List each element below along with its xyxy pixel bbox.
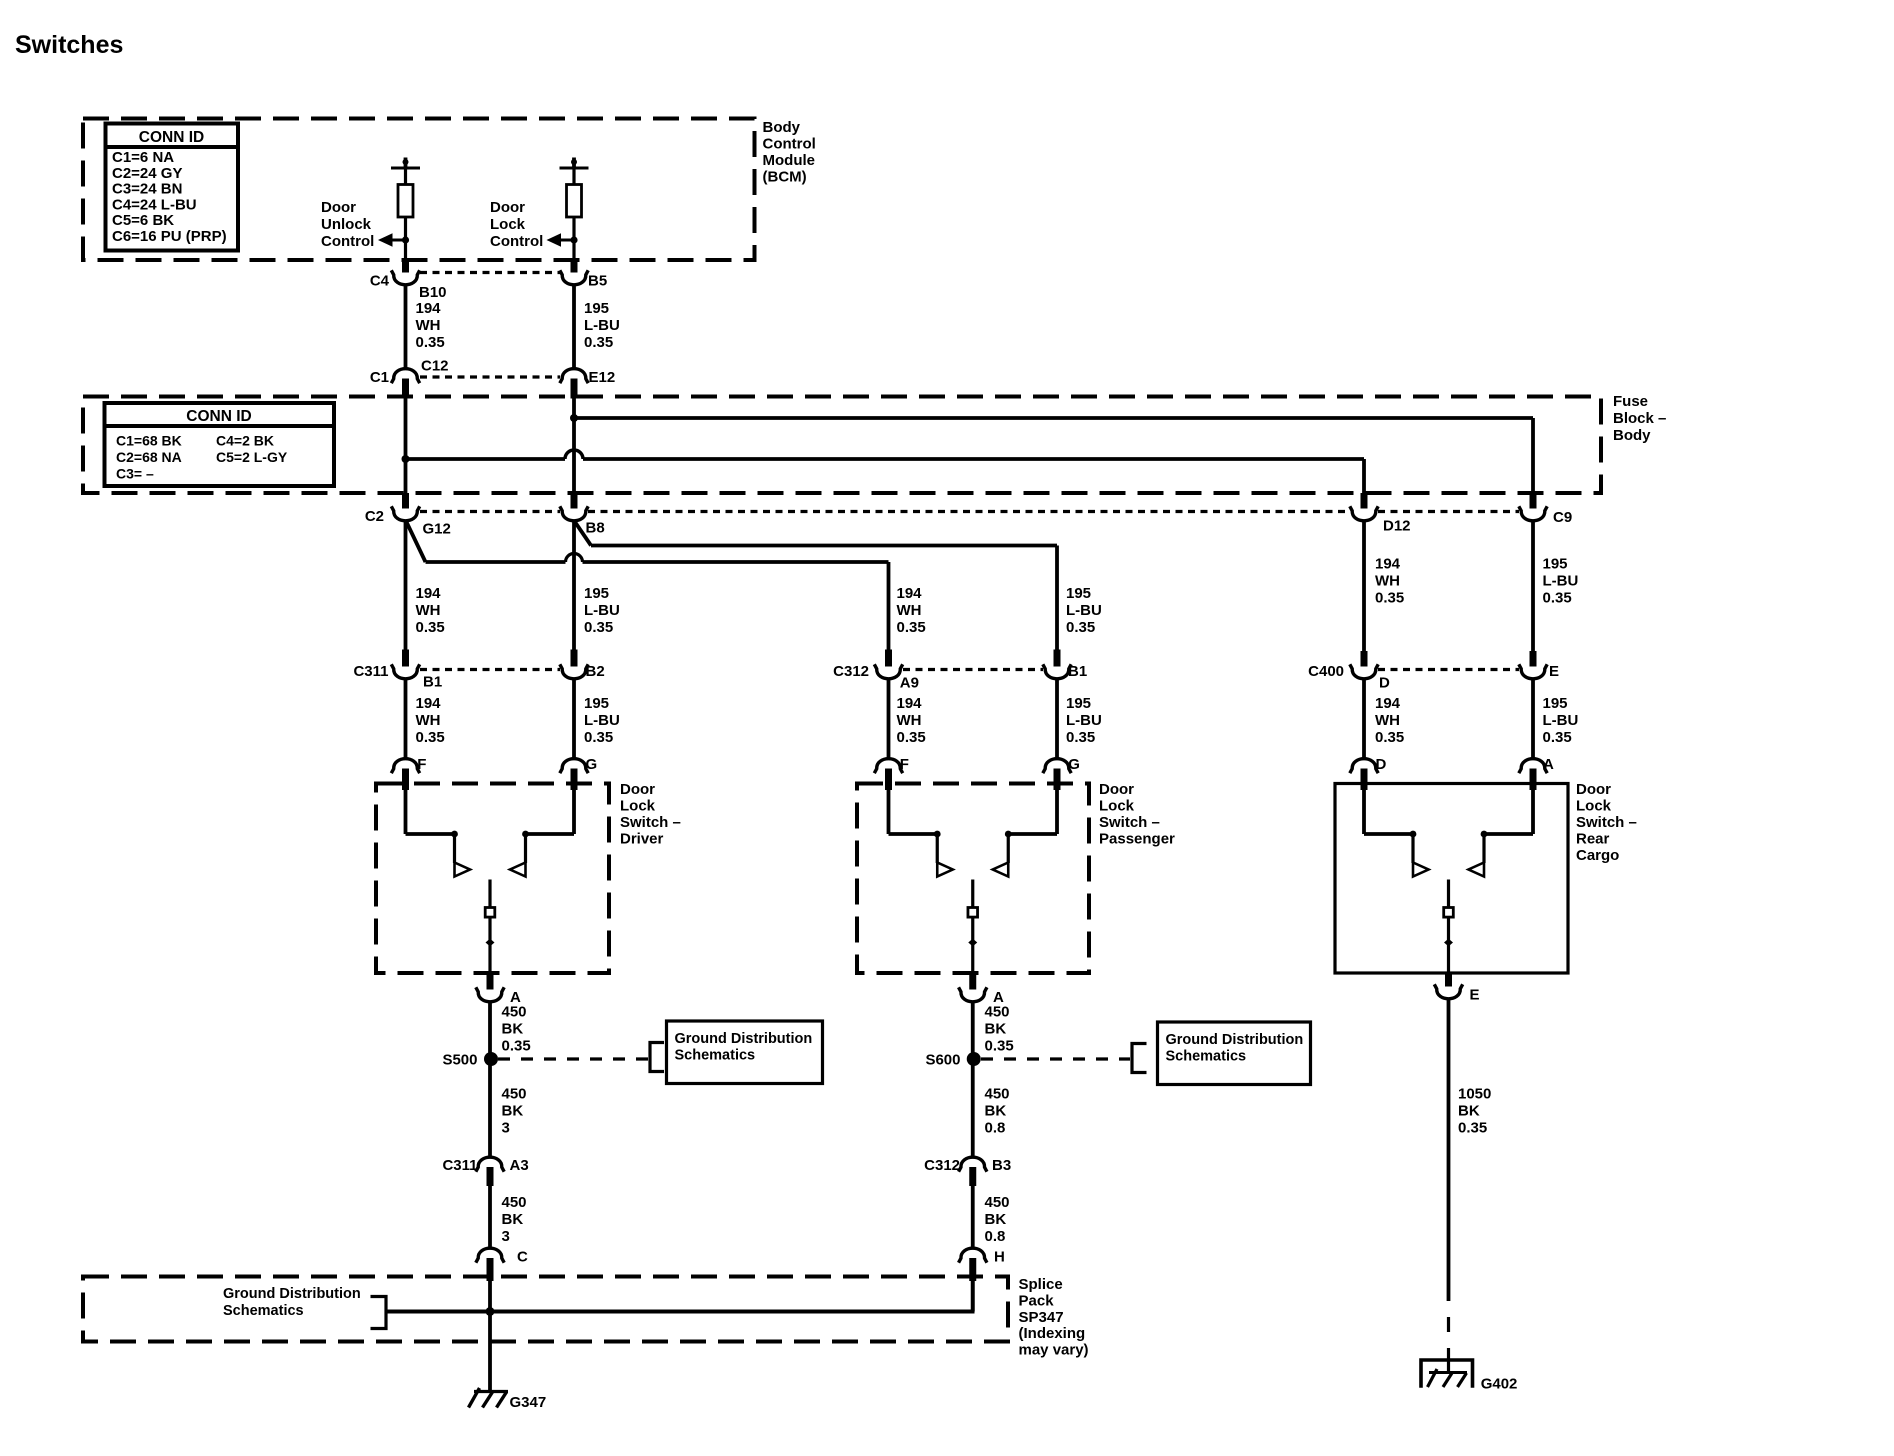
wire H leg into bus	[971, 1281, 975, 1312]
door lock switch passenger right contact dot	[1005, 831, 1012, 838]
door lock switch rear cargo pivot square	[1444, 908, 1454, 918]
svg-text:SP347: SP347	[1019, 1309, 1064, 1326]
svg-text:194: 194	[1375, 695, 1401, 712]
svg-text:0.35: 0.35	[502, 1038, 531, 1055]
svg-text:H: H	[994, 1249, 1005, 1266]
svg-text:C2=24 GY: C2=24 GY	[112, 165, 182, 182]
svg-text:E: E	[1470, 987, 1480, 1004]
svg-text:450: 450	[502, 1194, 527, 1211]
svg-text:0.35: 0.35	[416, 619, 445, 636]
svg-text:BK: BK	[502, 1103, 524, 1120]
door lock switch rear cargo right contact dot	[1481, 831, 1488, 838]
svg-text:B10: B10	[419, 284, 447, 301]
junction dot splice bus / ground wire	[486, 1307, 495, 1316]
wire branch unlock control to D12 (hop over)	[406, 457, 566, 461]
svg-text:WH: WH	[416, 602, 441, 619]
connector E12 pin	[560, 369, 588, 383]
svg-text:0.35: 0.35	[1066, 729, 1095, 746]
svg-text:195: 195	[1066, 585, 1091, 602]
door lock switch rear cargo left contact arrowhead	[1413, 863, 1429, 877]
svg-text:Splice: Splice	[1019, 1276, 1063, 1293]
wire 195 L-BU 0.35 (C400 to rear switch A)	[1531, 680, 1535, 759]
svg-text:195: 195	[1543, 556, 1568, 573]
connector C400 pin D	[1361, 651, 1368, 667]
svg-text:0.8: 0.8	[985, 1120, 1006, 1137]
switch pin D connector	[1350, 759, 1378, 773]
module box Splice Pack SP347	[83, 1277, 1008, 1342]
svg-text:WH: WH	[1375, 573, 1400, 590]
door lock switch rear cargo right contact wire	[1531, 790, 1535, 834]
dashed reference wire S500 to ground distribution schematics	[498, 1057, 648, 1060]
connector C311 pin B1	[402, 650, 409, 667]
svg-text:S600: S600	[925, 1052, 960, 1069]
harness dotted line C2-B8-D12-C9	[420, 510, 560, 513]
svg-text:194: 194	[416, 300, 442, 317]
svg-text:A: A	[1543, 756, 1554, 773]
svg-text:0.35: 0.35	[1375, 590, 1404, 607]
svg-text:Driver: Driver	[620, 831, 664, 848]
wire branch to passenger unlock (diagonal + hop)	[407, 522, 426, 562]
door lock switch passenger left contact arrowhead	[937, 863, 953, 877]
harness dotted line C12-E12	[420, 375, 560, 378]
svg-text:0.35: 0.35	[416, 729, 445, 746]
svg-text:450: 450	[502, 1086, 527, 1103]
door lock switch driver left contact dot	[451, 831, 458, 838]
harness dotted line C4-B5	[420, 271, 560, 274]
svg-text:C1=68 BK: C1=68 BK	[116, 433, 182, 449]
svg-text:L-BU: L-BU	[1066, 712, 1102, 729]
svg-text:C400: C400	[1308, 663, 1344, 680]
svg-text:C12: C12	[421, 358, 449, 375]
svg-text:Lock: Lock	[1099, 798, 1135, 815]
wire 450 BK 3 (C311 to splice pack C)	[488, 1186, 492, 1248]
svg-text:G347: G347	[510, 1394, 547, 1411]
switch pin F connector	[874, 759, 902, 773]
svg-text:Lock: Lock	[490, 216, 526, 233]
svg-text:195: 195	[584, 585, 609, 602]
svg-text:S500: S500	[442, 1052, 477, 1069]
svg-text:Body: Body	[763, 119, 801, 136]
svg-text:B1: B1	[423, 674, 442, 691]
door lock switch driver left contact arrowhead	[455, 863, 471, 877]
wire 450 BK 0.8 (C312 to splice pack H)	[971, 1186, 975, 1248]
connector C1 / C12 pin	[391, 369, 419, 383]
svg-text:Switch –: Switch –	[1576, 814, 1637, 831]
svg-text:Door: Door	[620, 781, 655, 798]
svg-text:C3=24 BN: C3=24 BN	[112, 181, 182, 198]
svg-text:Control: Control	[490, 233, 543, 250]
svg-text:C5=2 L-GY: C5=2 L-GY	[216, 449, 288, 465]
door lock switch passenger common contact wire	[971, 880, 974, 974]
svg-text:C311: C311	[353, 663, 388, 680]
ground G402	[1421, 1360, 1473, 1388]
splice S600	[967, 1052, 981, 1066]
connector C312 pin B3	[959, 1157, 987, 1171]
svg-text:BK: BK	[1458, 1103, 1480, 1120]
svg-text:194: 194	[1375, 556, 1401, 573]
door lock switch driver detent dot	[486, 939, 495, 947]
switch box door lock switch passenger	[857, 784, 1089, 974]
off-page bracket (S500)	[650, 1043, 664, 1072]
svg-text:(BCM): (BCM)	[763, 169, 807, 186]
table CONN ID (fuse block)	[105, 403, 335, 486]
module box Body Control Module (BCM)	[83, 119, 755, 261]
svg-text:C311: C311	[442, 1157, 477, 1174]
connector C311 pin B2	[571, 650, 578, 667]
arrow door unlock control	[393, 239, 406, 242]
reference box Ground Distribution Schematics (S500)	[667, 1021, 823, 1084]
svg-text:195: 195	[584, 695, 609, 712]
svg-text:Block –: Block –	[1613, 410, 1666, 427]
svg-text:0.35: 0.35	[1066, 619, 1095, 636]
svg-text:CONN ID: CONN ID	[139, 129, 204, 146]
svg-text:BK: BK	[985, 1211, 1007, 1228]
svg-text:450: 450	[502, 1004, 527, 1021]
svg-text:BK: BK	[502, 1021, 524, 1038]
svg-text:Passenger: Passenger	[1099, 831, 1175, 848]
door lock switch driver pivot square	[485, 908, 495, 918]
switch box door lock switch driver	[376, 784, 609, 974]
wire 194 WH 0.35 (C400 to rear switch D)	[1362, 680, 1366, 759]
module box Fuse Block - Body	[83, 397, 1601, 494]
svg-text:0.35: 0.35	[1458, 1120, 1487, 1137]
svg-text:D12: D12	[1383, 518, 1411, 535]
svg-text:Lock: Lock	[1576, 798, 1612, 815]
wire branch to passenger lock (diagonal)	[575, 522, 591, 546]
svg-text:Door: Door	[321, 199, 356, 216]
door lock switch passenger left contact dot	[934, 831, 941, 838]
svg-text:C4=2 BK: C4=2 BK	[216, 433, 274, 449]
switch pin G connector	[560, 759, 588, 773]
svg-text:0.35: 0.35	[1375, 729, 1404, 746]
harness dotted line C311	[420, 668, 560, 671]
connector C312 pin B1	[1054, 650, 1061, 667]
svg-text:Schematics: Schematics	[1166, 1049, 1247, 1065]
wire 195 L-BU 0.35 (C312 to passenger switch G)	[1055, 679, 1059, 758]
svg-text:0.35: 0.35	[584, 729, 613, 746]
svg-text:Door: Door	[1099, 781, 1134, 798]
svg-text:194: 194	[897, 585, 923, 602]
off-page bracket (S600)	[1132, 1044, 1147, 1073]
switch pin A connector (passenger)	[969, 973, 976, 990]
svg-text:L-BU: L-BU	[1543, 712, 1579, 729]
svg-text:L-BU: L-BU	[1543, 573, 1579, 590]
wire branch lock control to C9	[574, 416, 1533, 420]
reference box Ground Distribution Schematics (S600)	[1158, 1022, 1311, 1085]
svg-text:Lock: Lock	[620, 798, 656, 815]
wire 194 WH 0.35 (C312 to passenger switch F)	[887, 679, 891, 758]
svg-text:WH: WH	[416, 712, 441, 729]
harness dotted line C400	[1378, 668, 1519, 671]
svg-text:Schematics: Schematics	[675, 1048, 756, 1064]
svg-text:0.35: 0.35	[584, 619, 613, 636]
svg-text:E12: E12	[589, 369, 616, 386]
svg-text:0.35: 0.35	[897, 729, 926, 746]
svg-text:0.35: 0.35	[584, 334, 613, 351]
splice pack pin C connector	[476, 1248, 504, 1262]
svg-text:0.35: 0.35	[416, 334, 445, 351]
wire 450 BK 0.35 (driver)	[488, 1002, 492, 1053]
svg-text:G12: G12	[423, 521, 451, 538]
junction dot C1 branch	[402, 455, 410, 463]
door lock switch passenger detent dot	[968, 939, 977, 947]
wire 195 L-BU 0.35 (C311 to driver switch G)	[572, 679, 576, 758]
door lock switch driver right contact arrowhead	[510, 863, 526, 877]
wire C leg through splice pack to ground	[488, 1281, 492, 1391]
svg-text:G: G	[586, 756, 598, 773]
svg-text:Module: Module	[763, 152, 816, 169]
svg-text:G402: G402	[1481, 1376, 1518, 1393]
door lock switch rear cargo right contact arrowhead	[1469, 863, 1485, 877]
connector C311 pin A3	[476, 1157, 504, 1171]
svg-text:195: 195	[1066, 695, 1091, 712]
svg-text:may vary): may vary)	[1019, 1342, 1089, 1359]
door lock switch rear cargo left contact wire	[1362, 790, 1366, 834]
svg-text:0.35: 0.35	[897, 619, 926, 636]
svg-text:Control: Control	[321, 233, 374, 250]
svg-text:Door: Door	[490, 199, 525, 216]
wire 194 WH 0.35 driver branch	[404, 522, 408, 650]
connector C4 pin (BCM)	[402, 261, 409, 273]
svg-text:L-BU: L-BU	[584, 712, 620, 729]
wire 194 WH 0.35 rear branch	[1362, 522, 1366, 652]
wire (inside fuse block) E12 pass-through	[572, 399, 576, 494]
svg-text:0.35: 0.35	[985, 1038, 1014, 1055]
svg-text:C1=6 NA: C1=6 NA	[112, 149, 174, 166]
svg-text:Ground Distribution: Ground Distribution	[223, 1286, 361, 1302]
svg-text:Door: Door	[1576, 781, 1611, 798]
door lock switch driver right contact dot	[522, 831, 529, 838]
svg-text:C6=16 PU (PRP): C6=16 PU (PRP)	[112, 228, 227, 245]
svg-text:L-BU: L-BU	[584, 602, 620, 619]
dashed wire to G402	[1447, 1301, 1450, 1348]
svg-text:C3= –: C3= –	[116, 466, 154, 482]
wire 194 WH 0.35 (C311 to driver switch F)	[404, 679, 408, 758]
wire 450 BK 0.8 (S600 to C312)	[971, 1066, 975, 1158]
door lock switch passenger left contact wire	[887, 790, 891, 834]
driver output - door unlock control (inside BCM)	[404, 158, 408, 169]
svg-text:0.35: 0.35	[1543, 590, 1572, 607]
svg-text:Fuse: Fuse	[1613, 393, 1648, 410]
harness dotted line C312	[903, 668, 1043, 671]
svg-text:WH: WH	[897, 602, 922, 619]
splice S500	[484, 1052, 498, 1066]
svg-text:C2=68 NA: C2=68 NA	[116, 449, 182, 465]
wire 195 L-BU 0.35 rear branch	[1531, 522, 1535, 652]
svg-text:450: 450	[985, 1086, 1010, 1103]
splice pack pin H connector	[959, 1248, 987, 1262]
svg-text:Control: Control	[763, 136, 816, 153]
wire splice pack bus	[386, 1310, 975, 1314]
door lock switch driver right contact wire	[572, 790, 576, 834]
svg-text:WH: WH	[1375, 712, 1400, 729]
connector C9 pin	[1530, 493, 1537, 509]
svg-text:C1: C1	[370, 369, 389, 386]
svg-text:C5=6 BK: C5=6 BK	[112, 212, 174, 229]
svg-text:B3: B3	[992, 1157, 1011, 1174]
svg-text:C: C	[517, 1249, 528, 1266]
connector B8 pin	[571, 493, 578, 509]
switch pin A connector	[1519, 759, 1547, 773]
svg-text:Cargo: Cargo	[1576, 847, 1619, 864]
svg-text:3: 3	[502, 1228, 510, 1245]
svg-text:CONN ID: CONN ID	[186, 408, 251, 425]
svg-text:BK: BK	[985, 1103, 1007, 1120]
svg-text:Switches: Switches	[15, 31, 123, 59]
svg-text:B5: B5	[588, 273, 607, 290]
connector B5 pin (BCM)	[571, 261, 578, 273]
svg-text:Schematics: Schematics	[223, 1303, 304, 1319]
svg-text:Switch –: Switch –	[1099, 814, 1160, 831]
svg-text:Rear: Rear	[1576, 831, 1610, 848]
switch pin E connector (rear cargo)	[1445, 973, 1452, 987]
table CONN ID (BCM)	[106, 124, 239, 251]
door lock switch rear cargo detent dot	[1444, 939, 1453, 947]
svg-text:F: F	[417, 756, 426, 773]
connector C312 pin A9	[885, 650, 892, 667]
switch pin A connector (driver)	[487, 973, 494, 990]
switch pin F connector	[391, 759, 419, 773]
connector D12 pin	[1361, 493, 1368, 509]
svg-text:A3: A3	[510, 1157, 529, 1174]
svg-text:1050: 1050	[1458, 1086, 1491, 1103]
svg-text:0.8: 0.8	[985, 1228, 1006, 1245]
door lock switch driver common contact wire	[488, 880, 491, 974]
door lock switch passenger pivot square	[968, 908, 978, 918]
svg-text:C4=24 L-BU: C4=24 L-BU	[112, 196, 197, 213]
arrow door lock control	[561, 239, 574, 242]
door lock switch passenger right contact wire	[1055, 790, 1059, 834]
svg-text:D: D	[1376, 756, 1387, 773]
switch pin G connector	[1043, 759, 1071, 773]
svg-text:Ground Distribution: Ground Distribution	[1166, 1032, 1304, 1048]
svg-text:D: D	[1379, 675, 1390, 692]
svg-text:B2: B2	[586, 663, 605, 680]
svg-text:194: 194	[416, 585, 442, 602]
svg-text:WH: WH	[416, 317, 441, 334]
wire 450 BK 3 (S500 to C311)	[488, 1066, 492, 1158]
svg-text:195: 195	[584, 300, 609, 317]
connector C2 / G12 pin	[402, 493, 409, 509]
svg-text:G: G	[1068, 756, 1080, 773]
svg-text:BK: BK	[985, 1021, 1007, 1038]
wire 195 L-BU 0.35 driver branch	[572, 522, 576, 650]
door lock switch passenger right contact arrowhead	[993, 863, 1009, 877]
door lock switch driver left contact wire	[404, 790, 408, 834]
svg-text:BK: BK	[502, 1211, 524, 1228]
wire 195 L-BU 0.35 (B5 to E12)	[572, 285, 576, 369]
junction dot E12 branch	[570, 414, 578, 422]
junction dot lock output	[570, 236, 577, 243]
wire (inside fuse block) C1 pass-through	[404, 399, 408, 494]
svg-text:Switch –: Switch –	[620, 814, 681, 831]
wire 194 WH 0.35 (C4 to C12)	[404, 285, 408, 369]
svg-text:B8: B8	[586, 520, 605, 537]
connector C400 pin E	[1530, 651, 1537, 667]
svg-text:450: 450	[985, 1194, 1010, 1211]
junction dot unlock output	[402, 236, 409, 243]
dashed reference wire S600 to ground distribution schematics	[981, 1057, 1130, 1060]
driver output - door lock control (inside BCM)	[572, 158, 576, 169]
door lock switch rear cargo common contact wire	[1447, 880, 1450, 974]
door lock switch rear cargo left contact dot	[1410, 831, 1417, 838]
svg-text:A9: A9	[900, 675, 919, 692]
wire 1050 BK 0.35 (rear cargo to G402)	[1447, 1000, 1451, 1302]
svg-text:(Indexing: (Indexing	[1019, 1325, 1086, 1342]
svg-text:3: 3	[502, 1120, 510, 1137]
svg-text:Ground Distribution: Ground Distribution	[675, 1031, 813, 1047]
svg-text:0.35: 0.35	[1543, 729, 1572, 746]
wire 450 BK 0.35 (passenger)	[971, 1002, 975, 1053]
svg-text:C9: C9	[1553, 509, 1572, 526]
svg-text:194: 194	[416, 695, 442, 712]
svg-text:Unlock: Unlock	[321, 216, 372, 233]
switch box door lock switch rear cargo	[1335, 784, 1568, 974]
ground G347	[474, 1390, 508, 1393]
svg-text:195: 195	[1543, 695, 1568, 712]
svg-text:C2: C2	[365, 508, 384, 525]
svg-text:C312: C312	[833, 663, 869, 680]
svg-text:WH: WH	[897, 712, 922, 729]
svg-text:L-BU: L-BU	[1066, 602, 1102, 619]
off-page bracket (splice pack)	[371, 1297, 387, 1329]
svg-text:194: 194	[897, 695, 923, 712]
svg-text:C312: C312	[924, 1157, 960, 1174]
svg-text:Pack: Pack	[1019, 1292, 1055, 1309]
svg-text:B1: B1	[1068, 663, 1087, 680]
svg-text:450: 450	[985, 1004, 1010, 1021]
svg-text:L-BU: L-BU	[584, 317, 620, 334]
svg-text:C4: C4	[370, 273, 390, 290]
svg-text:Body: Body	[1613, 427, 1651, 444]
svg-text:F: F	[900, 756, 909, 773]
svg-text:E: E	[1549, 663, 1559, 680]
